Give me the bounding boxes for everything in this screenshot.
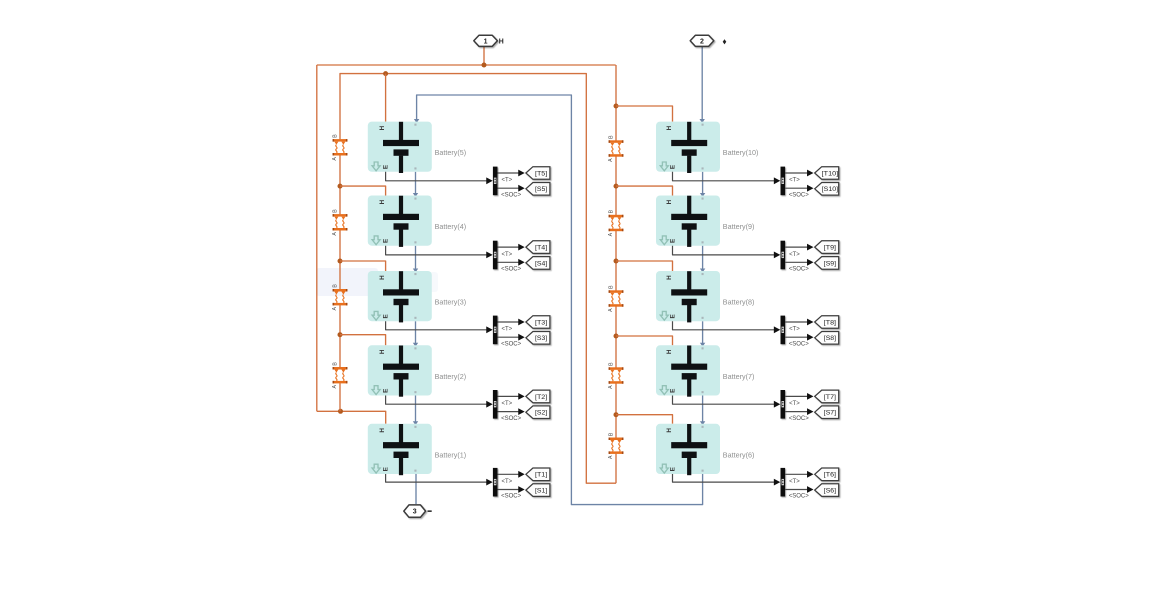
wire: right thermal chain segment: [615, 231, 617, 291]
node: junction right chain 1: [614, 184, 619, 189]
goto tag [S10]: [815, 183, 839, 196]
wire: <SOC> output: [498, 411, 519, 413]
port 1 (H): [474, 35, 498, 46]
goto tag [S7]: [815, 406, 839, 419]
wire: <T> output: [785, 395, 807, 397]
wire: Battery(8) H stub: [616, 261, 673, 271]
node: junction right chain 0: [614, 104, 619, 109]
arrowhead: [807, 486, 813, 493]
svg-text:E: E: [383, 238, 390, 243]
ghost highlight artifact: [316, 268, 378, 296]
node: junction B5 H on H2: [383, 71, 388, 76]
label -: [428, 510, 432, 512]
svg-text:<T>: <T>: [502, 401, 513, 407]
svg-text:Battery(9): Battery(9): [723, 222, 755, 231]
svg-text:E: E: [383, 388, 390, 393]
wire: signal E to bus selector: [673, 172, 776, 181]
wire: top orange rail H1: [317, 64, 616, 66]
svg-text:[S4]: [S4]: [535, 260, 547, 267]
svg-text:[S7]: [S7]: [824, 410, 836, 417]
wire: <T> output: [498, 321, 519, 323]
wire: left thermal chain segment: [339, 230, 341, 289]
svg-text:H: H: [666, 428, 673, 433]
svg-text:[T7]: [T7]: [824, 394, 836, 401]
wire: series link Battery(8)-(7): [702, 321, 704, 344]
arrowhead: [518, 170, 524, 177]
label + (star): [723, 39, 727, 44]
wire: series link Battery(10)-(9): [702, 172, 704, 195]
wire: <T> output: [498, 473, 519, 475]
svg-text:A: A: [608, 232, 614, 236]
svg-text:[T4]: [T4]: [535, 245, 547, 252]
svg-text:B: B: [332, 284, 338, 288]
node: junction chain/bottom: [338, 409, 343, 414]
arrowhead: [518, 471, 524, 478]
arrowhead: [518, 259, 524, 266]
arrowhead: [807, 259, 813, 266]
goto tag [S3]: [526, 332, 550, 345]
battery Battery(9): [656, 196, 754, 247]
arrowhead: [807, 393, 813, 400]
svg-text:E: E: [670, 164, 677, 169]
svg-text:E: E: [383, 466, 390, 471]
goto tag [T5]: [526, 167, 550, 180]
battery Battery(3): [368, 271, 466, 322]
arrowhead: [518, 244, 524, 251]
bus selector for T1/S1: [493, 468, 498, 497]
wire: series link Battery(2)-(1): [415, 396, 417, 423]
bus selector for T5/S5: [493, 167, 498, 196]
svg-text:A: A: [608, 158, 614, 162]
svg-text:B: B: [608, 362, 614, 366]
wire: <SOC> output: [785, 489, 807, 491]
thermal resistor right 3 (B/A): [608, 285, 623, 312]
svg-text:<T>: <T>: [789, 479, 800, 485]
svg-text:H: H: [499, 38, 504, 45]
svg-text:<SOC>: <SOC>: [789, 341, 810, 347]
goto tag [T10]: [815, 167, 839, 180]
wire: port2 drop to Battery(10): [701, 47, 703, 121]
wire: <T> output: [785, 246, 807, 248]
arrowhead: [518, 334, 524, 341]
svg-text:B: B: [332, 362, 338, 366]
wire: signal E to bus selector: [386, 172, 488, 181]
thermal resistor right 5 (B/A): [608, 432, 623, 459]
battery Battery(6): [656, 424, 754, 475]
wire: <T> output: [785, 321, 807, 323]
wire: <T> output: [785, 473, 807, 475]
svg-text:<SOC>: <SOC>: [789, 416, 810, 422]
node: junction port1/H1: [482, 63, 487, 68]
wire: Battery(2) H stub: [340, 335, 386, 346]
goto tag [S9]: [815, 257, 839, 270]
arrowhead: [700, 268, 705, 272]
arrowhead into bus selector: [774, 479, 780, 486]
battery Battery(5): [368, 122, 466, 173]
wire: right thermal chain segment: [615, 384, 617, 438]
svg-text:A: A: [332, 385, 338, 389]
goto tag [S1]: [526, 484, 550, 497]
svg-text:Battery(4): Battery(4): [435, 222, 467, 231]
wire: Battery(1) to port 3: [415, 474, 417, 504]
svg-text:Battery(2): Battery(2): [435, 372, 467, 381]
svg-text:[S5]: [S5]: [535, 186, 547, 193]
svg-text:B: B: [608, 285, 614, 289]
arrowhead: [807, 319, 813, 326]
wire: signal E to bus selector: [673, 246, 776, 255]
wire: signal E to bus selector: [673, 396, 776, 405]
wire: Battery(5) H stub: [385, 74, 387, 122]
svg-text:H: H: [666, 349, 673, 354]
wire: right thermal chain segment: [615, 157, 617, 216]
node: junction left chain 2: [338, 332, 343, 337]
svg-text:[T1]: [T1]: [535, 472, 547, 479]
bus selector for T4/S4: [493, 241, 498, 270]
thermal resistor left 2 (B/A): [332, 209, 347, 236]
arrowhead: [413, 343, 418, 347]
node: junction right chain 4: [614, 412, 619, 417]
arrowhead: [807, 170, 813, 177]
svg-text:<T>: <T>: [502, 327, 513, 333]
wire: series link Battery(4)-(3): [415, 246, 417, 270]
arrowhead: [700, 421, 705, 425]
thermal resistor right 2 (B/A): [608, 209, 623, 236]
svg-text:B: B: [608, 135, 614, 139]
svg-text:<T>: <T>: [789, 401, 800, 407]
svg-text:B: B: [608, 209, 614, 213]
battery Battery(1): [368, 424, 466, 475]
wire: <SOC> output: [498, 489, 519, 491]
arrowhead: [518, 408, 524, 415]
arrowhead into bus selector: [486, 326, 492, 333]
svg-text:A: A: [332, 157, 338, 161]
thermal resistor left 1 (B/A): [332, 134, 347, 161]
wire: <SOC> output: [785, 187, 807, 189]
svg-text:3: 3: [413, 509, 417, 516]
svg-text:Battery(5): Battery(5): [435, 148, 467, 157]
arrowhead: [413, 421, 418, 425]
arrowhead: [413, 193, 418, 197]
arrowhead: [518, 486, 524, 493]
arrowhead into Battery(5) top: [414, 119, 419, 123]
wire: <T> output: [498, 246, 519, 248]
wire: <SOC> output: [498, 187, 519, 189]
battery Battery(4): [368, 196, 466, 247]
arrowhead: [518, 185, 524, 192]
svg-text:<T>: <T>: [502, 479, 513, 485]
arrowhead: [807, 408, 813, 415]
svg-text:[S8]: [S8]: [824, 335, 836, 342]
arrowhead into bus selector: [774, 252, 780, 259]
svg-text:<T>: <T>: [502, 178, 513, 184]
arrowhead: [413, 268, 418, 272]
svg-text:H: H: [379, 199, 386, 204]
node: junction left chain 0: [338, 184, 343, 189]
wire: right thermal chain segment: [615, 454, 617, 484]
svg-text:A: A: [332, 307, 338, 311]
bus selector for T6/S6: [781, 468, 786, 497]
svg-text:<SOC>: <SOC>: [501, 416, 522, 422]
battery Battery(10): [656, 122, 758, 173]
goto tag [T2]: [526, 390, 550, 403]
wire: <SOC> output: [498, 261, 519, 263]
battery Battery(8): [656, 271, 754, 322]
wire: series link Battery(9)-(8): [702, 246, 704, 270]
svg-text:Battery(3): Battery(3): [435, 298, 467, 307]
svg-text:[S1]: [S1]: [535, 488, 547, 495]
arrowhead into Battery(10) top: [700, 119, 705, 123]
svg-text:H: H: [666, 125, 673, 130]
wire: signal E to bus selector: [386, 474, 488, 482]
wire: signal E to bus selector: [386, 396, 488, 405]
wire: port1 drop to top rail: [483, 47, 485, 66]
node: junction left chain 1: [338, 259, 343, 264]
svg-text:H: H: [379, 275, 386, 280]
wire: right chain top: [615, 65, 617, 141]
svg-text:[T3]: [T3]: [535, 319, 547, 326]
wire: Battery(6) to Battery(5) long link: [417, 95, 703, 505]
goto tag [S5]: [526, 183, 550, 196]
wire: signal E to bus selector: [386, 321, 488, 330]
arrowhead: [807, 334, 813, 341]
svg-text:[S10]: [S10]: [822, 186, 839, 193]
svg-text:A: A: [608, 385, 614, 389]
node: junction right chain 3: [614, 334, 619, 339]
bus selector for T8/S8: [781, 316, 786, 345]
wire: right thermal chain segment: [615, 307, 617, 368]
wire: <SOC> output: [785, 261, 807, 263]
goto tag [T3]: [526, 316, 550, 329]
svg-text:[S9]: [S9]: [824, 260, 836, 267]
svg-text:2: 2: [700, 38, 704, 45]
wire: Battery(10) H stub: [616, 106, 673, 122]
arrowhead into bus selector: [774, 326, 780, 333]
svg-text:A: A: [608, 308, 614, 312]
svg-text:E: E: [670, 466, 677, 471]
battery Battery(7): [656, 345, 754, 396]
wire: series link Battery(5)-(4): [415, 172, 417, 195]
wire: series link Battery(3)-(2): [415, 321, 417, 344]
svg-text:[T5]: [T5]: [535, 170, 547, 177]
svg-text:H: H: [666, 199, 673, 204]
wire: signal E to bus selector: [673, 474, 776, 482]
svg-text:[T2]: [T2]: [535, 394, 547, 401]
wire: series link Battery(7)-(6): [702, 396, 704, 423]
goto tag [S6]: [815, 484, 839, 497]
wire: Battery(9) H stub: [616, 186, 673, 195]
wire: <SOC> output: [785, 411, 807, 413]
wire: signal E to bus selector: [673, 321, 776, 330]
svg-text:Battery(8): Battery(8): [723, 298, 755, 307]
wire: signal E to bus selector: [386, 246, 488, 255]
goto tag [T1]: [526, 468, 550, 481]
goto tag [T8]: [815, 316, 839, 329]
goto tag [T7]: [815, 390, 839, 403]
node: junction right chain 2: [614, 259, 619, 264]
svg-text:[T10]: [T10]: [822, 170, 839, 177]
svg-text:<SOC>: <SOC>: [789, 267, 810, 273]
arrowhead into bus selector: [774, 177, 780, 184]
svg-text:Battery(7): Battery(7): [723, 372, 755, 381]
svg-text:H: H: [379, 349, 386, 354]
arrowhead: [807, 244, 813, 251]
arrowhead: [807, 471, 813, 478]
battery Battery(2): [368, 345, 466, 396]
goto tag [S4]: [526, 257, 550, 270]
arrowhead into bus selector: [486, 177, 492, 184]
svg-text:<SOC>: <SOC>: [789, 494, 810, 500]
wire: Battery(3) H stub: [340, 261, 386, 271]
wire: Battery(6) H stub: [616, 415, 673, 424]
svg-text:B: B: [332, 134, 338, 138]
svg-text:[T8]: [T8]: [824, 319, 836, 326]
bus selector for T9/S9: [781, 241, 786, 270]
goto tag [S2]: [526, 406, 550, 419]
arrowhead: [518, 319, 524, 326]
arrowhead into bus selector: [774, 401, 780, 408]
wire: Battery(4) H stub: [340, 186, 386, 195]
svg-text:<SOC>: <SOC>: [501, 341, 522, 347]
bus selector for T7/S7: [781, 390, 786, 419]
svg-text:<T>: <T>: [789, 252, 800, 258]
wire: <T> output: [498, 395, 519, 397]
arrowhead into bus selector: [486, 479, 492, 486]
svg-text:<SOC>: <SOC>: [501, 267, 522, 273]
svg-text:[T6]: [T6]: [824, 472, 836, 479]
port 2 (+): [690, 35, 714, 46]
svg-text:H: H: [666, 275, 673, 280]
svg-text:Battery(1): Battery(1): [435, 450, 467, 459]
wire: second orange rail H2: [340, 74, 616, 484]
svg-text:E: E: [383, 314, 390, 319]
svg-text:[S3]: [S3]: [535, 335, 547, 342]
svg-text:1: 1: [484, 38, 488, 45]
wire: bottom-left horizontal to Battery(1) H: [317, 411, 386, 424]
svg-text:Battery(6): Battery(6): [723, 450, 755, 459]
wire: <SOC> output: [498, 336, 519, 338]
svg-text:B: B: [608, 432, 614, 436]
wire: <SOC> output: [785, 336, 807, 338]
arrowhead: [700, 193, 705, 197]
svg-text:[S2]: [S2]: [535, 410, 547, 417]
bus selector for T10/S10: [781, 167, 786, 196]
arrowhead into bus selector: [486, 401, 492, 408]
svg-text:<T>: <T>: [789, 178, 800, 184]
port 3 (-): [404, 505, 426, 517]
wire: left thermal chain segment: [339, 155, 341, 214]
thermal resistor left 4 (B/A): [332, 362, 347, 389]
wire: left thermal chain segment: [339, 305, 341, 367]
svg-text:<SOC>: <SOC>: [501, 192, 522, 198]
wire: <T> output: [785, 172, 807, 174]
svg-text:H: H: [379, 428, 386, 433]
bus selector for T2/S2: [493, 390, 498, 419]
thermal resistor right 4 (B/A): [608, 362, 623, 389]
svg-text:[T9]: [T9]: [824, 245, 836, 252]
svg-text:E: E: [670, 238, 677, 243]
wire: Battery(7) H stub: [616, 336, 673, 345]
svg-text:<SOC>: <SOC>: [789, 192, 810, 198]
bus selector for T3/S3: [493, 316, 498, 345]
wire: outer left vertical: [316, 65, 318, 411]
goto tag [T6]: [815, 468, 839, 481]
svg-text:<T>: <T>: [789, 327, 800, 333]
svg-text:A: A: [332, 232, 338, 236]
svg-text:Battery(10): Battery(10): [723, 148, 759, 157]
goto tag [T9]: [815, 241, 839, 254]
arrowhead: [518, 393, 524, 400]
svg-text:H: H: [379, 125, 386, 130]
wire: <T> output: [498, 172, 519, 174]
svg-text:E: E: [670, 314, 677, 319]
thermal resistor left 3 (B/A): [332, 284, 347, 311]
arrowhead: [807, 185, 813, 192]
wire: left thermal chain segment: [339, 383, 341, 411]
svg-text:E: E: [670, 388, 677, 393]
svg-text:[S6]: [S6]: [824, 488, 836, 495]
arrowhead: [700, 343, 705, 347]
svg-text:<T>: <T>: [502, 252, 513, 258]
svg-text:A: A: [608, 455, 614, 459]
arrowhead into bus selector: [486, 252, 492, 259]
goto tag [S8]: [815, 332, 839, 345]
svg-text:E: E: [383, 164, 390, 169]
goto tag [T4]: [526, 241, 550, 254]
svg-text:B: B: [332, 209, 338, 213]
thermal resistor right 1 (B/A): [608, 135, 623, 162]
svg-text:<SOC>: <SOC>: [501, 494, 522, 500]
